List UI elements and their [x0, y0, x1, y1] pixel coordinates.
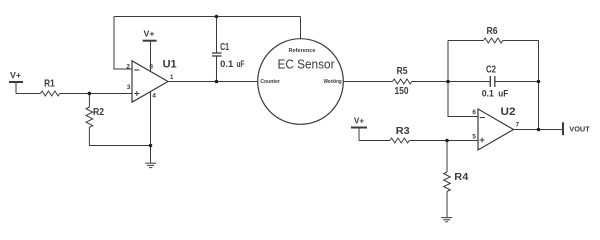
svg-text:150: 150 — [395, 86, 409, 97]
svg-text:Working: Working — [324, 79, 342, 85]
svg-text:EC Sensor: EC Sensor — [278, 57, 336, 72]
svg-text:V+: V+ — [10, 70, 21, 80]
svg-text:R4: R4 — [454, 172, 468, 183]
svg-text:1: 1 — [170, 74, 174, 81]
svg-text:C1: C1 — [220, 42, 229, 53]
svg-text:R5: R5 — [397, 66, 408, 77]
svg-text:2: 2 — [126, 63, 130, 70]
svg-text:R2: R2 — [93, 107, 104, 118]
svg-text:Reference: Reference — [289, 48, 316, 54]
svg-text:4: 4 — [152, 93, 156, 100]
svg-text:U2: U2 — [501, 106, 516, 118]
svg-text:Counter: Counter — [260, 79, 280, 85]
svg-text:7: 7 — [515, 122, 519, 129]
svg-text:3: 3 — [127, 84, 131, 91]
svg-text:0.1: 0.1 — [220, 59, 234, 70]
svg-text:uF: uF — [498, 89, 508, 100]
svg-text:R1: R1 — [44, 79, 55, 90]
svg-text:5: 5 — [472, 134, 476, 141]
svg-text:8: 8 — [149, 64, 153, 71]
svg-text:R3: R3 — [396, 126, 410, 137]
svg-text:R6: R6 — [487, 26, 498, 37]
svg-text:U1: U1 — [163, 59, 177, 71]
svg-text:uF: uF — [237, 59, 245, 70]
svg-text:6: 6 — [472, 109, 476, 116]
svg-text:C2: C2 — [486, 65, 496, 76]
svg-text:V+: V+ — [144, 28, 155, 38]
svg-text:VOUT: VOUT — [569, 125, 590, 134]
svg-text:V+: V+ — [354, 117, 364, 126]
svg-text:0.1: 0.1 — [482, 89, 495, 100]
